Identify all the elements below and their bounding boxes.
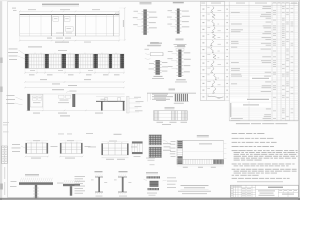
node X title — [146, 172, 158, 173]
spec sketches — [211, 7, 214, 13]
spec row numbers — [202, 9, 204, 10]
T node horizontal bar — [19, 182, 53, 184]
node X leader curls — [144, 179, 148, 180]
beam plan band body — [25, 54, 124, 68]
beam B1 bottom flange line — [20, 32, 119, 34]
vertical dimension line right of beam — [124, 8, 126, 40]
vid B body — [154, 111, 188, 121]
cross node 2 — [63, 184, 80, 186]
marks between clusters and node — [171, 140, 176, 143]
vid B title — [165, 107, 175, 108]
detail B leader labels — [51, 145, 58, 148]
frame border — [8, 2, 299, 198]
beam B1 right end vertical — [112, 14, 114, 36]
dimension line 1 below plan — [25, 72, 124, 74]
corner node inner text — [199, 142, 212, 145]
spec rotated group label — [230, 103, 231, 117]
column bar detail body — [178, 50, 181, 78]
view 3 left leader labels — [7, 94, 15, 97]
bottom edge dark strip — [0, 198, 300, 200]
detail 4-4 title — [169, 89, 176, 90]
detail 4-4 dark bars cluster — [175, 94, 176, 102]
section 2-2 small title — [119, 171, 128, 172]
section 1-1 body — [95, 176, 103, 178]
labels left of bar 1 — [134, 10, 139, 13]
section 4-4 title — [173, 2, 184, 3]
corner node middle line — [183, 151, 224, 153]
cluster leader labels — [163, 142, 171, 145]
stiffener bar detail body — [156, 60, 160, 75]
spec table verticals — [205, 2, 207, 101]
small text left mid — [86, 132, 93, 135]
spec table caption below — [236, 122, 250, 125]
view 3 dimension line — [27, 109, 125, 111]
detail C leader labels — [88, 146, 96, 149]
splice plate 1 — [53, 17, 59, 21]
corner node top line — [177, 140, 224, 142]
beam B1 splice verticals — [51, 14, 53, 36]
cross node 2 text block — [75, 175, 86, 178]
corner node bottom ladder band — [177, 159, 224, 164]
view 3 title text — [52, 89, 64, 90]
vid B bar cluster mid — [171, 111, 173, 121]
dimension line below beam — [20, 40, 119, 42]
splice plate 2 — [64, 17, 70, 21]
column bar ticks — [176, 51, 183, 53]
text inside beam lower middle — [56, 32, 64, 35]
T node hatch zone — [20, 178, 22, 182]
title block left cell texts — [231, 187, 233, 190]
detail 4-4 text cluster — [154, 94, 167, 97]
column bar leaders left — [172, 52, 178, 55]
section bar detail 1 flange ticks — [142, 11, 149, 13]
labels right of bar 1 — [149, 11, 157, 14]
view 3 middle dark post — [73, 94, 75, 107]
title block left rows — [230, 187, 255, 189]
bolted splice detail B — [60, 143, 83, 154]
left margin small text block — [3, 121, 9, 124]
spec section header band 1 — [250, 77, 272, 80]
vid B bar cluster right — [181, 111, 183, 121]
spec section header band 2 — [230, 98, 271, 101]
title block name cell text — [258, 189, 275, 192]
single caption above title block — [237, 180, 283, 183]
section 3-3 title — [140, 2, 152, 3]
view 3 dimension text — [33, 112, 40, 115]
dimension text row 1 — [29, 73, 35, 76]
view 3 middle small parts — [59, 95, 65, 98]
corner node right edge — [223, 141, 225, 165]
plate detail body — [150, 53, 163, 56]
spec table header — [200, 5, 298, 7]
right edge strip — [299, 0, 300, 200]
title block outer — [230, 185, 298, 197]
dimension text row 2 — [40, 78, 47, 81]
corner node dimension text below — [183, 166, 188, 169]
view 3 right small vertical detail — [127, 96, 129, 113]
fold mark left lower — [0, 184, 3, 190]
bolted splice detail A — [26, 143, 49, 154]
dimension line 2 below plan — [25, 81, 124, 83]
view 3 right hanging bars — [101, 101, 103, 111]
leader arcs left of bar 1 — [138, 12, 144, 15]
beam plan small ticks above — [34, 53, 36, 54]
small detail below caption — [174, 43, 187, 46]
fold mark left mid — [0, 87, 2, 93]
overall dimension line — [25, 87, 124, 89]
beam plan rib lines — [26, 54, 28, 68]
detail A leader labels — [12, 143, 20, 146]
section bar detail 2 flange ticks — [175, 10, 181, 12]
node X caption below — [147, 192, 157, 195]
stiffener bar labels — [162, 61, 168, 64]
view 3 bolts above flange — [105, 98, 108, 101]
bolted splice detail C — [102, 144, 129, 156]
beam plan flange lines — [25, 56, 124, 58]
T node title — [25, 174, 39, 175]
section 2-2 body — [118, 176, 127, 178]
node X labels right — [167, 176, 176, 179]
node X small text rows — [146, 157, 155, 160]
beam plan view labels above left — [28, 46, 42, 47]
spec table sketch rows — [200, 12, 229, 14]
dimension line above beam — [20, 10, 119, 12]
caption below bar 1 — [150, 43, 162, 44]
small ladder detail D — [132, 142, 143, 155]
T node ticks — [33, 187, 39, 189]
vid B bar cluster left — [154, 111, 156, 121]
column bar labels right — [184, 51, 191, 54]
beam B1 elevation title — [42, 4, 79, 6]
caption below stiffener bar — [154, 76, 163, 77]
T node vertical bar — [35, 185, 37, 199]
sheet background — [0, 0, 300, 200]
leader arcs left of bar 2 — [171, 11, 177, 14]
detail 4-4 top line — [147, 92, 196, 94]
spec section header band 3 — [230, 104, 271, 107]
left edge gray strip — [0, 0, 2, 200]
beam plan bolt posts — [25, 54, 29, 68]
node X dense detail — [147, 176, 161, 178]
corner node left ladder column — [177, 141, 183, 165]
title block left verticals — [232, 185, 234, 197]
stiffener bar ticks — [154, 61, 162, 63]
labels right of bar 2 — [182, 10, 189, 13]
dimension text below beam — [47, 37, 52, 40]
beam B1 stiffeners — [29, 15, 31, 36]
left margin stamp grid — [2, 146, 8, 164]
connection plan cluster lower — [149, 147, 162, 158]
section 1-1 small title — [95, 171, 103, 172]
spec right column text — [263, 5, 271, 8]
view 3 top line — [27, 93, 125, 95]
splice plate 3 — [65, 27, 73, 31]
detail A dimension — [26, 156, 49, 158]
caption below column bar — [176, 79, 186, 80]
spec table right thin rows — [229, 7, 298, 9]
view 3 left dark bar — [27, 94, 30, 111]
connection plan cluster upper — [149, 135, 162, 145]
beam B1 body outline — [20, 14, 119, 36]
section 2-2 title — [177, 45, 185, 46]
detail 4-4 caption — [174, 102, 184, 105]
fold mark left upper — [0, 58, 2, 64]
T node leader labels — [11, 180, 17, 183]
beam B1 right end plate — [115, 13, 119, 15]
detail B dimension — [60, 156, 83, 158]
section bar detail 2 body — [177, 9, 180, 34]
detail C dimension — [102, 157, 129, 159]
top edge strip — [0, 0, 300, 1]
corner node title — [197, 135, 209, 136]
spec table outer — [200, 2, 225, 101]
dimension text above beam — [12, 8, 16, 9]
scheme caption text block — [181, 184, 209, 187]
view 3 left cluster box — [30, 94, 43, 107]
section bar detail 1 body — [144, 9, 147, 34]
labels left of bar 2 — [168, 9, 173, 12]
beam B1 top flange — [20, 14, 119, 16]
beam plan leader labels left — [9, 48, 18, 51]
view 3 right flange line — [96, 100, 125, 102]
plate detail title — [150, 42, 159, 43]
left margin vertical text — [4, 167, 5, 179]
detail 4-4 left marks — [147, 93, 149, 101]
title block doc code cell — [256, 188, 299, 190]
notes text block — [232, 132, 238, 135]
vid B dimension text — [157, 121, 164, 124]
title block right lower cells — [277, 189, 279, 197]
text block right of view 3 — [152, 93, 168, 96]
plate leader arcs — [145, 53, 150, 56]
corner node leader labels left — [170, 143, 176, 146]
caption 1-1 below bar 2 — [176, 39, 184, 40]
